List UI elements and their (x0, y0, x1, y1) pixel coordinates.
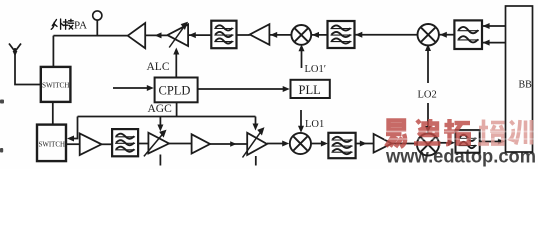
svg-text:BB: BB (519, 80, 533, 91)
svg-text:LO1′: LO1′ (305, 64, 327, 75)
svg-text:PA: PA (74, 20, 87, 32)
svg-text:www.edatop.com: www.edatop.com (385, 146, 536, 168)
svg-text:ALC: ALC (147, 61, 170, 73)
svg-text:PLL: PLL (299, 83, 321, 97)
svg-text:LO1: LO1 (305, 119, 324, 130)
svg-text:SWITCH: SWITCH (42, 82, 70, 90)
svg-text:CPLD: CPLD (159, 84, 191, 98)
svg-text:SWITCH: SWITCH (39, 141, 66, 149)
svg-text:LO2: LO2 (418, 90, 437, 101)
svg-text:AGC: AGC (148, 103, 173, 115)
